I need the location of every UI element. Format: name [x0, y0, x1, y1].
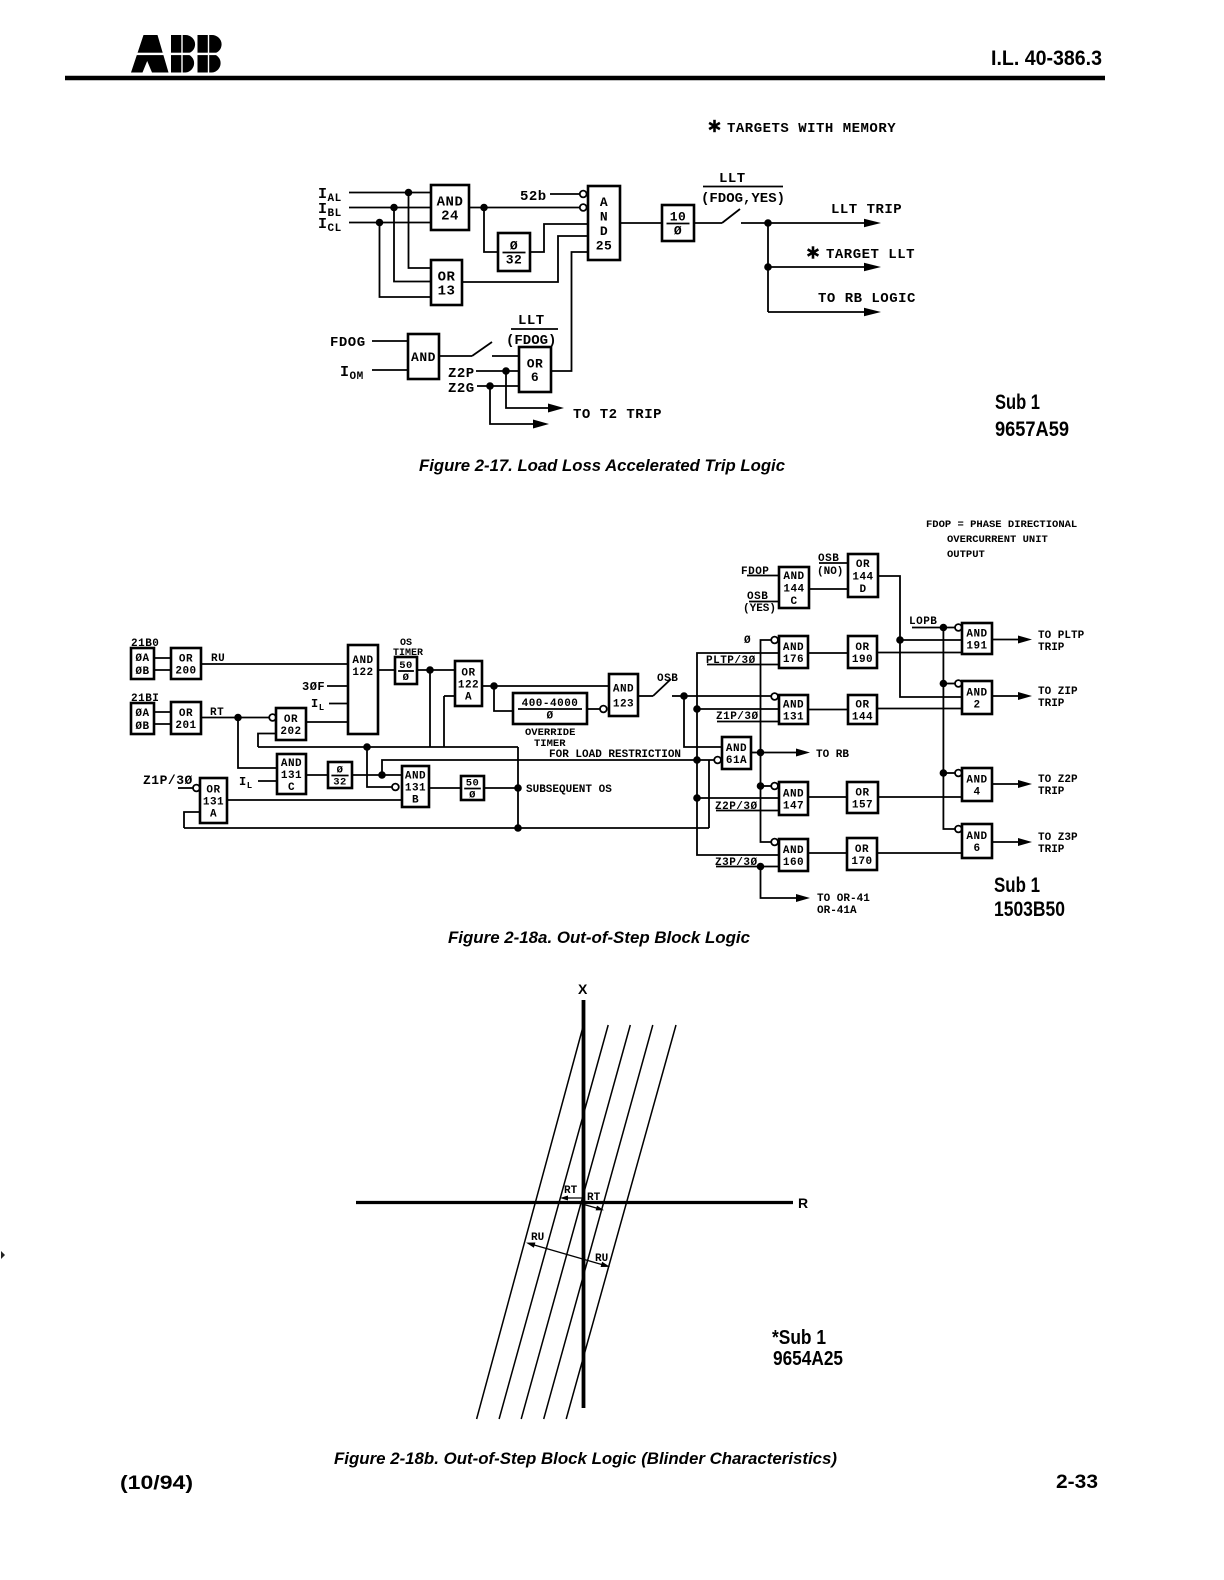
wire 21BI A to OR201 [154, 711, 171, 713]
switch LLT (FDOG) blade [472, 342, 492, 356]
svg-text:3ØF: 3ØF [302, 680, 325, 694]
wire OR144D branch to AND191 [900, 639, 962, 641]
gate AND131C [277, 754, 306, 794]
blinder characteristic line 4 [544, 1025, 653, 1419]
wire OSB YES to AND144C [749, 601, 779, 603]
wire Z3P/3Ø to AND160 [716, 866, 779, 868]
svg-text:OR: OR [855, 700, 869, 712]
gate AND4 [962, 768, 992, 801]
svg-text:C: C [790, 596, 797, 608]
svg-text:A: A [600, 195, 608, 210]
svg-text:Sub 1: Sub 1 [995, 391, 1040, 414]
wire LOPB to AND4 bubble [943, 772, 955, 774]
arrow TO Z2P TRIP [992, 780, 1032, 788]
gate OR170 [847, 838, 877, 870]
svg-text:131: 131 [405, 783, 426, 795]
svg-text:Ø: Ø [403, 672, 410, 684]
svg-text:D: D [859, 584, 866, 596]
blinder characteristic line 5 [566, 1025, 676, 1419]
wire AND122 out to OS timer [378, 669, 395, 671]
svg-text:R: R [798, 1195, 808, 1211]
svg-text:144: 144 [852, 712, 873, 724]
junction target LLT [764, 263, 772, 271]
junction OS timer output [426, 666, 434, 674]
svg-text:AND: AND [783, 642, 804, 654]
wire switch to OR6 in1 [492, 355, 519, 357]
svg-text:TO RB LOGIC: TO RB LOGIC [818, 291, 916, 307]
arrow RT left [560, 1196, 583, 1201]
svg-text:TRIP: TRIP [1038, 844, 1065, 856]
inverting bubble AND131B in2 [392, 784, 399, 791]
svg-text:6: 6 [973, 843, 980, 855]
wire AND147 out to OR157 [808, 796, 847, 798]
arrow TO Z3P TRIP [992, 838, 1032, 846]
arrow TO RB [761, 749, 811, 757]
svg-text:ØA: ØA [135, 708, 149, 720]
arrow RU double (left head) [525, 1240, 535, 1248]
inverting bubble AND25 in1 [580, 191, 587, 198]
svg-text:AND: AND [411, 350, 436, 365]
junction subsequent timer output [378, 771, 386, 779]
svg-text:TARGET LLT: TARGET LLT [826, 247, 915, 263]
svg-text:AND: AND [783, 789, 804, 801]
svg-text:FDOG: FDOG [330, 335, 366, 351]
junction LLT trip node [764, 219, 772, 227]
inverting bubble AND61A in2 [714, 757, 721, 764]
gate AND191 [962, 623, 992, 654]
wire Z1P/3Ø to OR131A bubble [178, 787, 193, 789]
svg-text:RT: RT [564, 1185, 578, 1197]
svg-text:Z1P/3Ø: Z1P/3Ø [143, 773, 193, 788]
svg-text:Z2P: Z2P [448, 366, 475, 382]
gate AND (load loss) [408, 334, 439, 379]
svg-text:32: 32 [333, 777, 347, 789]
junction Z3P to OR-41 [757, 863, 765, 871]
fraction bar of LLT/(FDOG) [511, 328, 558, 330]
junction RT [234, 714, 242, 722]
inverting bubble AND6 in1 [955, 826, 962, 833]
asterisk (targets note) [709, 120, 720, 132]
wire IBL branch to OR13 in2 [394, 208, 431, 282]
svg-text:OR: OR [284, 714, 298, 726]
gate OR144D [848, 554, 878, 597]
svg-text:SUBSEQUENT OS: SUBSEQUENT OS [526, 784, 612, 796]
svg-text:ØB: ØB [135, 666, 149, 678]
wire AND61A out [751, 752, 761, 754]
ABB logo [128, 35, 224, 73]
svg-text:52b: 52b [520, 189, 547, 205]
svg-text:RU: RU [531, 1232, 544, 1244]
junction OR144D line to AND191 [896, 636, 904, 644]
switch LLT (FDOG,YES) blade [722, 209, 740, 223]
block 21B0 phase units [131, 648, 154, 679]
svg-text:AND: AND [726, 743, 747, 755]
wire OR122A in2 [444, 695, 455, 697]
svg-text:OSB: OSB [657, 673, 678, 685]
svg-text:Ø: Ø [674, 224, 682, 239]
wire AND24 out branch to timer 0-32 [484, 208, 498, 253]
svg-text:61A: 61A [726, 755, 747, 767]
svg-text:(10/94): (10/94) [120, 1473, 193, 1494]
junction subsequent OS [514, 784, 522, 792]
svg-text:TRIP: TRIP [1038, 786, 1065, 798]
wire OR202 out to AND122 [306, 721, 348, 723]
junction AND24 output [480, 204, 488, 212]
asterisk (target LLT) [808, 246, 819, 258]
wire 3ØF to AND122 [327, 685, 348, 687]
wire timer 10-0 out to switch [694, 222, 722, 224]
wire OSB to AND131 bubble [684, 695, 771, 697]
wire AND25 out to timer 10-0 [620, 222, 662, 224]
svg-text:C: C [288, 782, 295, 794]
gate AND122 [348, 645, 378, 734]
junction LOPB to AND4 [940, 769, 948, 777]
wire ICL to AND24 [349, 222, 431, 224]
wire subsequent OS junction [484, 787, 518, 789]
svg-text:147: 147 [783, 801, 804, 813]
junction on Z2P [502, 367, 510, 375]
timer 0/32 [498, 233, 530, 271]
svg-text:TO Z3P: TO Z3P [1038, 832, 1078, 844]
svg-text:OR: OR [856, 559, 870, 571]
inverting bubble AND191 in1 [955, 624, 962, 631]
wire Z2G to OR6 [477, 385, 519, 387]
timer 0/32 (subsequent) [328, 762, 352, 789]
svg-text:170: 170 [851, 856, 872, 868]
scan speck left margin [1, 1251, 5, 1259]
arrow Z2G to T2 trip [490, 386, 549, 429]
svg-text:OR: OR [461, 668, 475, 680]
wire 21BI B to OR201 [154, 723, 171, 725]
svg-text:131: 131 [203, 797, 224, 809]
inverting bubble AND160 in1 [771, 839, 778, 846]
svg-text:OUTPUT: OUTPUT [947, 549, 985, 561]
wire AND131 out to OR144 [808, 709, 848, 711]
wire switch to output node [741, 222, 768, 224]
switch OSB blade [653, 679, 671, 696]
timer 10/0 [662, 205, 694, 241]
wire OR122A out to AND123 [482, 685, 609, 687]
wire AND176 out to OR190 [808, 652, 848, 654]
junction bottom bus to subsequent OS [514, 824, 522, 832]
gate OR190 [848, 636, 877, 668]
wire OR122A in2 riser [443, 696, 445, 747]
svg-text:10: 10 [670, 210, 687, 225]
junction OR122A output [490, 682, 498, 690]
svg-text:LLT: LLT [719, 171, 746, 187]
wire AND160 out to OR170 [808, 852, 847, 854]
inverting bubble AND4 in1 [955, 770, 962, 777]
wire IL to AND122 [329, 703, 348, 705]
svg-text:201: 201 [175, 720, 196, 732]
svg-text:AND: AND [613, 684, 634, 696]
wire OSB NO to OR144D [819, 562, 848, 564]
wire OS timer out to OR122A [417, 669, 455, 671]
svg-text:AND: AND [783, 845, 804, 857]
junction AND61A out [757, 749, 765, 757]
inverting bubble OR202 in1 [269, 714, 276, 721]
svg-text:TO RB: TO RB [816, 749, 849, 761]
wire Ø to AND147 in2 [697, 797, 779, 799]
blinder characteristic line 3 [521, 1025, 630, 1419]
wire 21B0 B to OR200 [154, 669, 171, 671]
wire FDOP to AND144C [747, 575, 779, 577]
junction LOPB to AND2 [940, 680, 948, 688]
svg-text:144: 144 [783, 584, 804, 596]
block 21BI phase units [131, 703, 154, 734]
svg-text:*Sub 1: *Sub 1 [772, 1327, 826, 1349]
header rule [65, 76, 1105, 81]
junction Ø to AND131 [693, 705, 701, 713]
wire timer 0-32 out to AND131B [352, 774, 402, 776]
svg-text:LOPB: LOPB [909, 616, 937, 628]
wire OR144D out down to AND2 [878, 576, 962, 697]
gate AND144C [779, 567, 809, 608]
svg-text:Z2G: Z2G [448, 381, 475, 397]
svg-text:Figure 2-18a. Out-of-Step Bloc: Figure 2-18a. Out-of-Step Block Logic [448, 928, 751, 947]
wire Ø distribution [697, 653, 779, 855]
wire OS line to AND131B bubble [367, 747, 392, 787]
svg-text:TRIP: TRIP [1038, 698, 1065, 710]
svg-text:13: 13 [438, 284, 456, 300]
svg-text:RT: RT [587, 1192, 601, 1204]
wire AND131C out to timer 0-32 [306, 774, 328, 776]
svg-text:TRIP: TRIP [1038, 642, 1065, 654]
gate OR13 [431, 260, 462, 305]
svg-text:122: 122 [458, 680, 479, 692]
svg-text:OR: OR [206, 785, 220, 797]
svg-text:OVERCURRENT UNIT: OVERCURRENT UNIT [947, 534, 1048, 546]
inverting bubble AND2 in1 [955, 680, 962, 687]
svg-text:122: 122 [352, 667, 373, 679]
svg-text:AND: AND [281, 758, 302, 770]
wire load restriction line [382, 760, 715, 775]
svg-text:AND: AND [405, 771, 426, 783]
svg-text:OR: OR [855, 844, 869, 856]
gate OR144 [848, 695, 877, 724]
wire Ø to AND131 in2 [697, 708, 779, 710]
svg-text:TO ZIP: TO ZIP [1038, 686, 1078, 698]
svg-text:AND: AND [352, 655, 373, 667]
wire LOPB vertical [943, 628, 955, 830]
svg-text:D: D [600, 224, 608, 239]
wire OS distribution line [258, 746, 518, 748]
junction on IAL [405, 189, 413, 197]
svg-text:OR: OR [855, 788, 869, 800]
svg-text:AND: AND [966, 629, 987, 641]
gate AND2 [962, 681, 992, 714]
svg-text:OR: OR [179, 708, 193, 720]
junction AND61A to AND147 [757, 782, 765, 790]
gate AND25 [588, 186, 620, 260]
wire RT branch to AND131C [238, 718, 277, 769]
svg-text:1503B50: 1503B50 [994, 898, 1065, 921]
wire 52b to AND25 [550, 193, 580, 195]
X axis (vertical) [582, 1000, 586, 1408]
wire FDOG to AND [372, 340, 408, 342]
wire OSB down to AND61A [684, 696, 722, 747]
blinder characteristic line 1 [477, 1025, 584, 1419]
arrow TO RB LOGIC [768, 308, 881, 317]
svg-text:(FDOG,YES): (FDOG,YES) [701, 191, 785, 207]
wire LOPB to AND2 bubble [943, 683, 955, 685]
svg-text:LLT: LLT [518, 313, 545, 329]
wire 21B0 A to OR200 [154, 657, 171, 659]
svg-text:6: 6 [531, 370, 539, 385]
svg-text:FDOP = PHASE DIRECTIONAL: FDOP = PHASE DIRECTIONAL [926, 519, 1077, 531]
wire PLTP/3Ø to AND176 [707, 664, 779, 666]
svg-text:190: 190 [852, 654, 873, 666]
svg-text:131: 131 [783, 712, 804, 724]
svg-text:TO PLTP: TO PLTP [1038, 630, 1085, 642]
svg-text:191: 191 [966, 641, 987, 653]
gate AND160 [779, 839, 808, 871]
svg-text:ØB: ØB [135, 721, 149, 733]
wire AND61A to AND147 bubble [761, 785, 772, 787]
timer 50/0 (subsequent OS) [461, 776, 484, 802]
svg-text:2-33: 2-33 [1056, 1472, 1098, 1493]
svg-text:24: 24 [441, 209, 459, 225]
inverting bubble AND131 in1 [771, 693, 778, 700]
wire trip node down [767, 223, 769, 312]
svg-text:A: A [465, 692, 472, 704]
junction OSB node [680, 692, 688, 700]
R axis (horizontal) [356, 1201, 793, 1204]
wire OS timer branch down [429, 670, 431, 747]
wire IAL to AND24 [349, 192, 431, 194]
wire AND123 out to switch [638, 695, 653, 697]
arrow TO OR-41 [761, 867, 811, 903]
wire switch to OSB node [672, 695, 684, 697]
svg-text:32: 32 [506, 253, 523, 268]
inverting bubble OR131A in1 [193, 785, 200, 792]
svg-text:OR: OR [179, 654, 193, 666]
wire OR170 out to AND6 [877, 852, 962, 854]
blinder characteristic line 2 [499, 1025, 608, 1419]
wire AND24 out to AND25 [469, 207, 580, 209]
arrow LLT TRIP [768, 219, 881, 228]
junction on ICL [376, 219, 384, 227]
gate AND176 [779, 636, 808, 668]
gate AND24 [431, 185, 469, 230]
svg-text:Ø: Ø [744, 635, 751, 647]
svg-text:9657A59: 9657A59 [995, 418, 1069, 441]
svg-text:AND: AND [966, 775, 987, 787]
wire OS line corner down to bottom bus [517, 747, 519, 828]
junction LOPB [940, 624, 948, 632]
svg-text:(NO): (NO) [817, 566, 843, 578]
wire OR6 out up to AND25 in5 [551, 252, 588, 371]
gate OR201 [171, 702, 201, 734]
gate AND131 (trip) [779, 695, 808, 724]
wire OR131A in2 from bottom bus [184, 812, 200, 828]
svg-text:123: 123 [613, 699, 634, 711]
wire OR122A out to override timer [494, 686, 513, 711]
gate OR200 [171, 648, 201, 679]
svg-text:TO T2 TRIP: TO T2 TRIP [573, 407, 662, 423]
wire Z1P/3Ø to AND131 [717, 721, 779, 723]
wire IOM to AND [372, 369, 408, 371]
svg-text:200: 200 [175, 666, 196, 678]
svg-text:176: 176 [783, 654, 804, 666]
junction on IBL [390, 204, 398, 212]
svg-text:Ø: Ø [546, 711, 553, 723]
wire LOPB to AND191 bubble [912, 627, 955, 629]
timer 400-4000/0 override [513, 693, 587, 724]
arrow TO ZIP TRIP [992, 692, 1032, 700]
svg-text:25: 25 [596, 238, 613, 253]
arrow Z2P to T2 trip [506, 371, 564, 413]
wire bottom bus riser to bubble line [708, 760, 710, 828]
wire bottom OSB bus [184, 827, 709, 829]
svg-text:202: 202 [280, 726, 301, 738]
wire OR13 out to AND25 [462, 236, 588, 282]
wire OR190 out to AND191 [877, 652, 962, 654]
wire ICL branch to OR13 in3 [380, 223, 432, 298]
fraction bar of LLT/(FDOG,YES) [703, 186, 783, 188]
svg-text:TO OR-41: TO OR-41 [817, 893, 870, 905]
svg-text:TO Z2P: TO Z2P [1038, 774, 1078, 786]
svg-text:AND: AND [783, 571, 804, 583]
svg-text:Ø: Ø [510, 239, 518, 254]
wire RU OR200 to AND122 [201, 663, 348, 665]
svg-text:4: 4 [973, 787, 980, 799]
svg-text:I.L. 40-386.3: I.L. 40-386.3 [991, 47, 1102, 70]
junction OS line to AND131B [363, 743, 371, 751]
inverting bubble AND123 in2 [600, 706, 607, 713]
wire RT OR201 to OR202 [201, 717, 269, 719]
svg-text:Figure 2-17. Load Loss Acceler: Figure 2-17. Load Loss Accelerated Trip … [419, 456, 786, 475]
wire OR157 out to AND4 [878, 796, 962, 798]
inverting bubble AND176 in1 [771, 637, 778, 644]
svg-text:131: 131 [281, 770, 302, 782]
gate AND123 [609, 674, 638, 716]
svg-text:A: A [210, 809, 217, 821]
svg-text:2: 2 [973, 700, 980, 712]
gate AND61A [722, 737, 751, 769]
junction on Z2G [486, 382, 494, 390]
svg-text:(YES): (YES) [743, 603, 776, 615]
wire OR144 out to AND2 [877, 708, 962, 710]
arrow RT right [584, 1205, 605, 1213]
svg-text:OR-41A: OR-41A [817, 905, 857, 917]
gate OR6 [519, 347, 551, 392]
wire Z2P/3Ø to AND147 [716, 810, 779, 812]
wire OR131A out to AND131B [227, 799, 402, 801]
svg-text:9654A25: 9654A25 [773, 1348, 843, 1370]
svg-text:LLT TRIP: LLT TRIP [831, 202, 902, 218]
wire AND out to switch [439, 355, 472, 357]
arrow TO PLTP TRIP [992, 636, 1032, 644]
gate AND147 [779, 782, 808, 815]
inverting bubble AND147 in1 [771, 783, 778, 790]
arrow RU double (right head) [529, 1244, 611, 1270]
gate OR157 [847, 782, 878, 813]
svg-text:TARGETS WITH MEMORY: TARGETS WITH MEMORY [727, 121, 896, 137]
wire AND131B out to timer 50-0 [429, 787, 461, 789]
svg-text:AND: AND [783, 700, 804, 712]
svg-text:AND: AND [966, 831, 987, 843]
gate OR122A [455, 661, 482, 706]
svg-text:Ø: Ø [469, 790, 476, 802]
gate OR202 [276, 708, 306, 740]
gate AND131B [402, 766, 429, 807]
wire AND144C out to OR144D [809, 588, 848, 590]
svg-text:OR: OR [855, 642, 869, 654]
junction Ø to load-restriction line [693, 756, 701, 764]
svg-text:160: 160 [783, 857, 804, 869]
svg-text:Sub 1: Sub 1 [994, 874, 1040, 897]
